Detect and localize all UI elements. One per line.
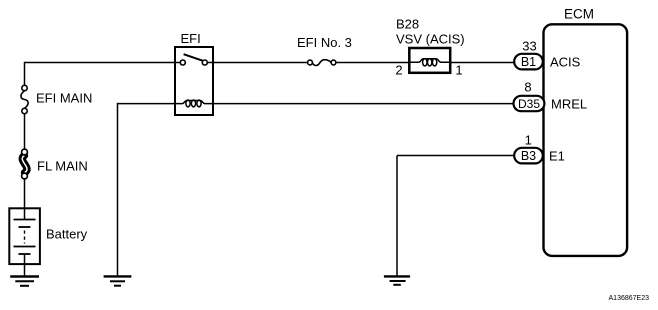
wire: relay switch output to EFI No. 3 fuse — [213, 62, 308, 64]
svg-text:FL MAIN: FL MAIN — [37, 159, 88, 174]
wire: battery negative to ground — [24, 264, 26, 276]
wire: EFI No. 3 fuse to VSV — [336, 62, 409, 64]
wire: VSV to ECM terminal B1 — [450, 62, 514, 64]
wire: battery feed top-left horizontal run to EFI relay — [25, 62, 176, 64]
svg-text:33: 33 — [522, 39, 536, 54]
connector terminal B1 — [514, 54, 543, 70]
svg-text:B3: B3 — [521, 149, 536, 163]
svg-text:B28: B28 — [396, 17, 419, 32]
wire: E1 horizontal run from ground riser to ECM terminal B3 — [397, 155, 515, 157]
ground (E1) — [384, 276, 410, 284]
svg-text:D35: D35 — [518, 97, 540, 111]
svg-text:ACIS: ACIS — [550, 55, 581, 70]
wire: E1 ground riser — [396, 156, 398, 277]
svg-text:1: 1 — [525, 133, 532, 148]
wire: relay coil row to ECM terminal D35 (MREL) — [213, 103, 514, 105]
svg-text:EFI: EFI — [181, 31, 201, 46]
wire: ground riser below relay coil — [117, 103, 119, 276]
svg-text:B1: B1 — [521, 55, 536, 69]
svg-text:EFI No. 3: EFI No. 3 — [297, 35, 352, 50]
ECM U1 — [544, 24, 628, 256]
svg-text:MREL: MREL — [551, 97, 587, 112]
svg-text:EFI MAIN: EFI MAIN — [36, 91, 92, 106]
svg-text:8: 8 — [524, 80, 531, 95]
fusible link FL MAIN — [22, 149, 28, 179]
svg-text:ECM: ECM — [564, 7, 594, 22]
ground (battery) — [10, 277, 39, 286]
svg-text:E1: E1 — [549, 149, 565, 164]
svg-text:Battery: Battery — [46, 227, 88, 242]
connector terminal D35 — [514, 96, 545, 111]
relay switch contact — [175, 54, 213, 65]
battery — [9, 208, 40, 264]
solenoid valve B28 VSV (ACIS) — [409, 48, 450, 73]
connector terminal B3 — [514, 148, 543, 164]
ground (EFI relay coil) — [104, 276, 132, 285]
relay EFI — [175, 47, 213, 115]
svg-text:2: 2 — [395, 63, 402, 78]
relay coil — [175, 100, 213, 107]
wire: relay coil to ground riser (left) — [118, 103, 176, 105]
svg-text:1: 1 — [455, 63, 462, 78]
svg-text:A136867E23: A136867E23 — [609, 295, 650, 302]
wire: vertical run from FL MAIN to battery — [24, 179, 26, 209]
svg-text:VSV (ACIS): VSV (ACIS) — [396, 32, 465, 47]
wire: vertical run between EFI MAIN fuse and FL MAIN — [24, 114, 26, 150]
fuse EFI MAIN — [21, 85, 28, 113]
wire: left vertical run from corner to EFI MAIN fuse — [24, 62, 26, 86]
fuse EFI No. 3 — [308, 60, 336, 66]
